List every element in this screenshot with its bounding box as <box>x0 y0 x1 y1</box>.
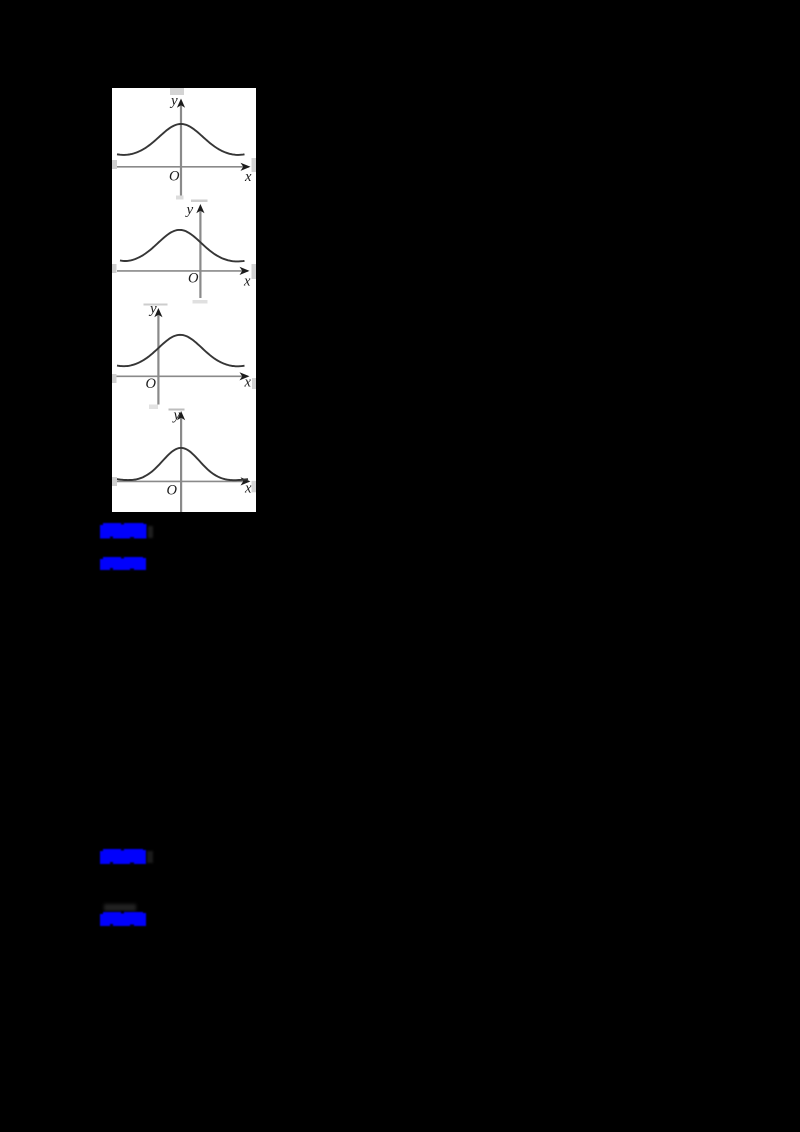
graph C: x-axis <box>117 375 249 377</box>
svg-text:x: x <box>243 274 251 290</box>
svg-text:y: y <box>169 93 178 109</box>
graph A: x-axis <box>117 166 250 168</box>
faint mark after label 3 <box>147 851 153 863</box>
graph C: bell curve <box>117 335 245 367</box>
graph D: y-axis <box>180 415 182 512</box>
graph B: bell curve <box>120 230 245 262</box>
graph B: x-axis <box>117 270 248 272</box>
svg-text:y: y <box>185 202 194 218</box>
light gray crop marks <box>170 87 184 95</box>
faint gray smudge above label 4 <box>104 904 136 911</box>
graph A: y-axis <box>180 102 182 196</box>
faint colon after label 1 <box>148 526 153 538</box>
white figure box with four graphs <box>112 88 256 512</box>
graph C: y-axis <box>157 312 159 405</box>
blue label fenxi-2 <box>100 848 146 865</box>
blue label xiangjie-2 <box>100 911 146 927</box>
graph D: x-axis <box>117 480 250 482</box>
svg-text:x: x <box>244 169 252 185</box>
svg-text:y: y <box>148 301 157 317</box>
svg-text:O: O <box>167 483 178 499</box>
svg-text:x: x <box>244 375 252 391</box>
graph A: bell curve <box>117 124 245 155</box>
blue label xiangjie-1 <box>100 556 146 571</box>
blue label fenxi-1 <box>100 522 147 540</box>
svg-text:O: O <box>146 376 157 392</box>
svg-text:O: O <box>188 271 199 287</box>
svg-text:x: x <box>244 481 252 497</box>
graph B: y-axis <box>199 208 201 298</box>
graph D: bell curve <box>116 448 248 480</box>
svg-text:O: O <box>169 169 180 185</box>
